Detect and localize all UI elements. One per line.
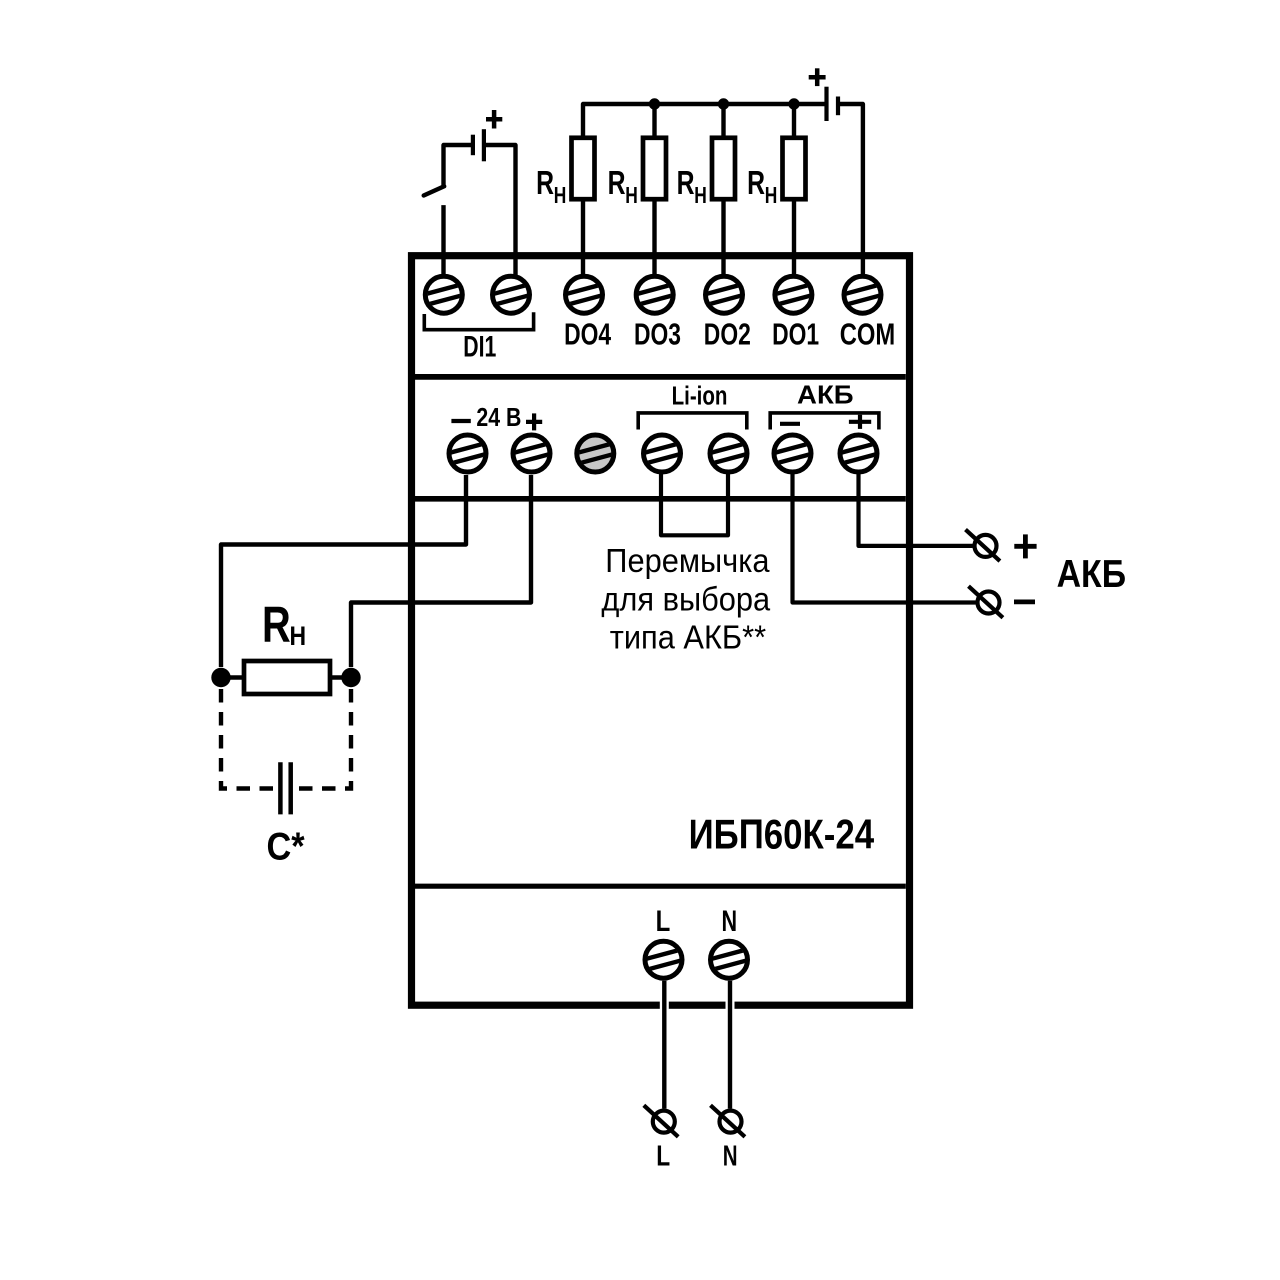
battery B2 long plate (positive) (824, 87, 828, 121)
terminal 24V- (449, 435, 487, 472)
wire resistor RH3 to terminal DO2 (721, 199, 725, 276)
wire bus to resistor RH4 (792, 104, 796, 138)
svg-text:R: R (536, 164, 554, 202)
label minus of AKB terminal (780, 422, 800, 426)
resistor RH1 (572, 138, 595, 199)
terminal Li-ion 1 (643, 435, 681, 472)
jumper wire between Li-ion terminals (661, 474, 728, 535)
resistor RH2 (643, 138, 666, 199)
bracket Li-ion jumper terminals (638, 413, 747, 430)
svg-text:DO3: DO3 (634, 317, 681, 351)
resistor RH2 label R_H (608, 164, 638, 208)
wire terminal 24V+ to node B (351, 475, 531, 667)
svg-text:DO2: DO2 (704, 317, 751, 351)
svg-text:для выбора: для выбора (601, 580, 770, 617)
divider below terminal row 2 (415, 496, 906, 502)
wire resistor RH5 to node B (328, 675, 351, 679)
battery B1 long plate (positive) (482, 129, 486, 161)
wire battery B1 to terminal DI1-2 (486, 145, 516, 276)
svg-text:H: H (625, 183, 638, 209)
resistor RH5 label R_H (262, 596, 306, 653)
wire bus to resistor RH2 (652, 104, 656, 138)
wire terminal L to mains L (662, 981, 666, 1109)
device body ИБП60К-24 outline (412, 256, 910, 1006)
wire DI1-1 upper segment (444, 145, 472, 187)
svg-text:H: H (290, 621, 307, 651)
svg-text:типа АКБ**: типа АКБ** (610, 618, 767, 655)
resistor RH3 label R_H (677, 164, 707, 208)
svg-text:N: N (723, 1141, 738, 1172)
switch S1 blade (424, 186, 445, 195)
junction dot above DO2 (718, 98, 729, 109)
svg-text:H: H (765, 183, 778, 209)
external battery terminal - (969, 586, 1003, 618)
white halo for wire N through border (726, 997, 735, 1013)
node A junction dot (211, 668, 230, 687)
terminal 24V+ (513, 435, 551, 472)
svg-text:COM: COM (840, 317, 895, 352)
svg-text:ИБП60К-24: ИБП60К-24 (689, 811, 875, 858)
wire resistor RH4 to terminal DO1 (792, 199, 796, 276)
svg-text:Li-ion: Li-ion (672, 381, 728, 410)
svg-text:Перемычка: Перемычка (605, 542, 769, 579)
svg-text:L: L (656, 1141, 670, 1172)
terminal DO3 (636, 276, 674, 313)
battery B1 short plate (negative) (471, 135, 475, 156)
battery B2 polarity label + (809, 68, 826, 86)
resistor RH4 (783, 138, 806, 199)
wire resistor RH1 to terminal DO4 (581, 199, 585, 276)
svg-text:N: N (722, 903, 738, 937)
battery B2 short plate (negative) (836, 97, 840, 116)
wire terminal 24V- to node A (221, 475, 466, 667)
wire resistor RH2 to terminal DO3 (652, 199, 656, 276)
external battery terminal + (966, 530, 1000, 562)
resistor RH4 label R_H (747, 164, 777, 208)
svg-text:АКБ: АКБ (797, 380, 854, 409)
battery B1 polarity label + (486, 110, 502, 129)
wire switch to terminal DI1-1 (441, 205, 445, 276)
label plus of external battery (1014, 534, 1036, 558)
terminal AKB - (774, 435, 812, 472)
bus wire from resistor RH1 to battery B2 (583, 104, 827, 138)
svg-text:H: H (554, 183, 567, 209)
label minus of 24 B (451, 419, 470, 423)
wire node A to resistor RH5 (221, 675, 246, 679)
svg-text:DI1: DI1 (463, 331, 496, 363)
wire battery B2 to terminal COM (840, 104, 863, 276)
svg-text:DO1: DO1 (772, 317, 819, 351)
dashed wire node A to capacitor C* (221, 689, 273, 789)
mains terminal N (711, 1105, 745, 1137)
terminal DI1-1 (425, 276, 463, 313)
capacitor C* right plate (288, 762, 293, 814)
svg-text:C*: C* (267, 824, 306, 868)
divider above bottom terminal row (415, 884, 906, 889)
terminal DO4 (565, 276, 603, 313)
wire terminal AKB- to external battery - (793, 474, 976, 603)
wire terminal AKB+ to external battery + (859, 474, 973, 546)
dashed wire capacitor C* to node B (297, 689, 351, 789)
bracket AKB terminals (770, 413, 879, 430)
white halo for wire L through border (660, 997, 669, 1013)
note text: Перемычка для выбора типа АКБ** (601, 542, 770, 656)
terminal DO2 (705, 276, 743, 313)
resistor RH1 label R_H (536, 164, 566, 208)
resistor RH3 (712, 138, 735, 199)
svg-text:АКБ: АКБ (1057, 552, 1126, 596)
terminal N (710, 941, 748, 978)
mains terminal L (644, 1105, 678, 1137)
terminal AKB + (840, 435, 878, 472)
label plus of 24 B (526, 413, 542, 430)
node B junction dot (341, 668, 360, 687)
junction dot above DO1 (788, 98, 799, 109)
svg-text:R: R (608, 164, 626, 202)
label minus of external battery (1014, 600, 1035, 605)
label plus of AKB terminal (849, 415, 871, 429)
svg-text:24 В: 24 В (476, 403, 521, 433)
wire bus to resistor RH3 (721, 104, 725, 138)
terminal COM (844, 276, 882, 313)
terminal Li-ion 2 (710, 435, 748, 472)
svg-text:DO4: DO4 (564, 317, 611, 351)
capacitor C* left plate (278, 762, 283, 814)
junction dot above DO3 (649, 98, 660, 109)
terminal unused (grey) (577, 435, 615, 472)
wire terminal N to mains N (728, 981, 732, 1109)
svg-text:R: R (677, 164, 695, 202)
resistor RH5 (load) (244, 661, 330, 694)
svg-text:R: R (262, 596, 291, 653)
bracket DI1 (424, 312, 533, 329)
terminal DI1-2 (492, 276, 530, 313)
terminal L (645, 941, 683, 978)
svg-text:L: L (656, 903, 671, 937)
terminal DO1 (775, 276, 813, 313)
svg-text:R: R (747, 164, 765, 202)
svg-text:H: H (694, 183, 707, 209)
divider between terminal row 1 and row 2 (415, 374, 906, 380)
